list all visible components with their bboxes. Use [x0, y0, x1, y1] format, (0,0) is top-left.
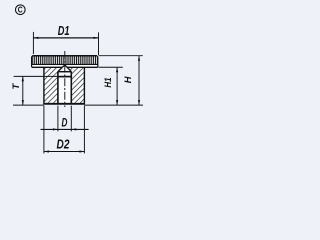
dimension D: extension lines — [57, 106, 59, 132]
dimension T: extension line bottom — [13, 104, 44, 106]
knurl band bottom line — [32, 63, 98, 65]
knurled head band — [32, 56, 98, 64]
svg-text:H1: H1 — [103, 77, 113, 87]
cone base line — [58, 71, 71, 73]
dimension H1: extension line — [98, 66, 122, 68]
bottom-right extension line — [84, 104, 143, 106]
svg-text:H: H — [123, 76, 133, 83]
dimension D2: extension lines — [43, 106, 45, 154]
head top line — [32, 55, 97, 57]
hole walls — [57, 72, 59, 104]
dimension D1: extension lines — [32, 32, 34, 54]
svg-text:C: C — [18, 5, 23, 15]
head chamfer corners — [31, 56, 34, 57]
svg-text:D1: D1 — [58, 23, 70, 38]
dimension T: dimension line with arrows — [22, 76, 24, 105]
dimension H: dimension line with arrows — [138, 56, 140, 105]
drill cone flanks — [58, 65, 71, 72]
dimension D2: dimension line with arrows — [44, 151, 85, 153]
thread depth line across part — [14, 75, 58, 77]
dimension D1: dimension line with arrows — [33, 37, 98, 39]
head rim strip (unknurled) — [32, 65, 98, 67]
dimension D: dimension line, outside arrows pointing in — [41, 128, 89, 130]
centerline (vertical axis, dash-dot) — [64, 51, 66, 107]
dimension H1: dimension line with arrows — [116, 67, 118, 105]
svg-text:D2: D2 — [57, 138, 70, 152]
dimension H: extension line top — [99, 55, 143, 57]
tapped hole (white interior with drill cone) — [58, 65, 71, 104]
variant marker: circled C — [15, 5, 25, 15]
body (sectioned, hatched) — [44, 67, 85, 104]
body outline — [43, 67, 45, 104]
svg-text:D: D — [61, 116, 67, 130]
head side edges — [31, 57, 33, 67]
head underside line — [32, 66, 98, 68]
